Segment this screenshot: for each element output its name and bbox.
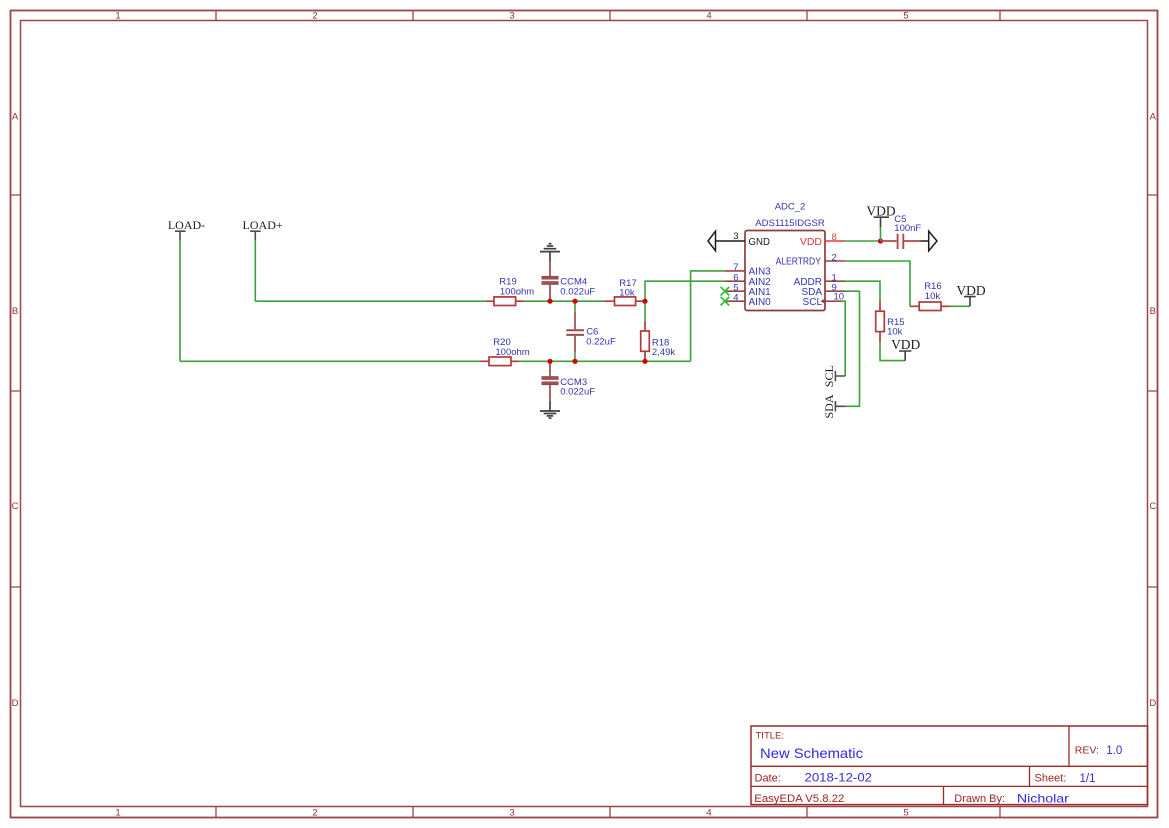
wire R15 to VDD flag	[880, 342, 905, 361]
port arrow GND left	[708, 231, 716, 251]
svg-text:2: 2	[312, 11, 317, 22]
op-amp U1 ADS1115IDGSR body	[745, 231, 825, 311]
svg-text:2,49k: 2,49k	[652, 347, 675, 358]
no-connect X on AIN1	[721, 287, 730, 296]
resistor R16	[910, 302, 950, 311]
capacitor CCM4	[542, 261, 558, 301]
svg-text:D: D	[1149, 698, 1156, 709]
wire ADDR to R15	[845, 281, 880, 301]
resistor R18	[641, 321, 650, 361]
frame row ticks right	[1148, 195, 1158, 587]
capacitor CCM3	[542, 361, 558, 401]
svg-text:3: 3	[733, 231, 738, 242]
wire up to AIN3	[691, 271, 725, 361]
power flag VDD at C5	[866, 203, 895, 241]
svg-text:Drawn By:: Drawn By:	[954, 793, 1005, 805]
wire LOAD+ to R19	[255, 300, 485, 302]
pin 2 ALERTRDY line	[825, 260, 845, 262]
svg-text:B: B	[1150, 306, 1156, 317]
frame row letters right	[1149, 112, 1156, 710]
svg-text:ALERTRDY: ALERTRDY	[776, 257, 822, 268]
resistor R19	[486, 297, 524, 306]
port arrow right of C5	[920, 231, 937, 251]
frame column numbers bottom	[115, 808, 908, 819]
svg-text:2: 2	[832, 252, 837, 263]
port LOAD-	[168, 218, 205, 241]
svg-text:C: C	[1149, 501, 1156, 512]
svg-text:GND: GND	[749, 236, 771, 248]
port SCL	[822, 365, 845, 387]
svg-text:1: 1	[115, 808, 120, 819]
svg-text:ADS1115IDGSR: ADS1115IDGSR	[755, 218, 825, 229]
svg-text:10k: 10k	[619, 287, 635, 298]
svg-text:LOAD+: LOAD+	[243, 218, 283, 232]
svg-text:4: 4	[706, 11, 711, 22]
wire ALERTRDY to R16	[845, 261, 910, 306]
frame column ticks top	[216, 11, 1000, 21]
wire LOAD+ vertical	[254, 241, 256, 302]
port LOAD+	[243, 218, 283, 241]
svg-text:3: 3	[509, 808, 514, 819]
pin 3 GND line	[716, 240, 746, 242]
svg-text:B: B	[12, 306, 18, 317]
pin 8 VDD line	[825, 240, 845, 242]
wire R19 to R17	[524, 300, 604, 302]
title block outline	[751, 726, 1148, 805]
capacitor C6	[566, 312, 584, 353]
svg-text:4: 4	[706, 808, 711, 819]
pin 1 ADDR line	[825, 280, 845, 282]
svg-text:D: D	[12, 698, 19, 709]
frame row letters left	[12, 112, 19, 710]
pin 5 AIN1	[725, 290, 745, 292]
resistor R20	[481, 357, 520, 366]
junction dots top wire	[547, 299, 647, 304]
svg-text:Sheet:: Sheet:	[1035, 773, 1067, 785]
svg-text:2018-12-02: 2018-12-02	[805, 773, 873, 785]
wire R20 to R18 bottom	[519, 360, 690, 362]
power flag VDD at R15	[891, 337, 920, 361]
svg-text:VDD: VDD	[800, 236, 823, 248]
capacitor C5	[881, 234, 921, 249]
svg-text:1: 1	[115, 11, 120, 22]
svg-text:5: 5	[903, 808, 908, 819]
svg-text:0.022uF: 0.022uF	[560, 387, 595, 398]
wire SDA down	[845, 291, 860, 406]
svg-text:VDD: VDD	[891, 337, 920, 352]
junction dots bottom wire	[547, 359, 647, 364]
frame column numbers top	[115, 11, 908, 22]
svg-text:0.22uF: 0.22uF	[586, 336, 616, 347]
wire C6 bottom stub	[574, 353, 576, 362]
svg-text:EasyEDA V5.8.22: EasyEDA V5.8.22	[754, 793, 844, 805]
svg-text:100ohm: 100ohm	[495, 347, 529, 358]
svg-text:8: 8	[832, 232, 837, 243]
pin 7 AIN3	[725, 270, 745, 272]
svg-text:4: 4	[733, 292, 738, 303]
wire junction down to R18	[644, 301, 646, 321]
svg-text:Nicholar: Nicholar	[1017, 791, 1069, 805]
svg-text:2: 2	[312, 808, 317, 819]
svg-text:VDD: VDD	[866, 203, 895, 218]
pin 6 AIN2	[725, 280, 745, 282]
svg-text:LOAD-: LOAD-	[168, 218, 205, 232]
wire VDD net pin8 to junction	[845, 240, 881, 242]
frame row ticks left	[11, 195, 21, 587]
wire LOAD- vertical	[179, 241, 181, 362]
svg-text:A: A	[12, 112, 19, 123]
svg-text:3: 3	[509, 11, 514, 22]
SCL clock marker	[820, 299, 825, 304]
svg-text:100ohm: 100ohm	[500, 287, 534, 298]
svg-text:5: 5	[903, 11, 908, 22]
wire SCL down	[841, 301, 845, 376]
svg-text:TITLE:: TITLE:	[756, 731, 785, 742]
svg-text:10k: 10k	[925, 291, 941, 302]
svg-text:0.022uF: 0.022uF	[560, 286, 595, 297]
port SDA	[822, 394, 845, 418]
wire LOAD- to R20	[180, 360, 481, 362]
svg-text:ADC_2: ADC_2	[775, 201, 806, 212]
wire R16 to VDD flag	[950, 305, 970, 307]
svg-text:100nF: 100nF	[894, 223, 921, 234]
svg-text:New Schematic: New Schematic	[760, 745, 863, 761]
svg-text:A: A	[1150, 112, 1157, 123]
svg-text:AIN0: AIN0	[749, 297, 772, 308]
svg-text:SCL: SCL	[803, 297, 823, 308]
resistor R15	[876, 301, 885, 342]
svg-text:C: C	[12, 501, 19, 512]
svg-text:REV:: REV:	[1075, 745, 1099, 757]
ground below CCM3	[540, 401, 560, 418]
wire R17 junction up to AIN2	[645, 281, 725, 301]
svg-text:SCL: SCL	[822, 365, 836, 387]
svg-text:1.0: 1.0	[1106, 745, 1122, 757]
frame column ticks bottom	[216, 807, 1000, 818]
ground above CCM4	[540, 244, 560, 262]
resistor R17	[604, 297, 645, 306]
junction dot VDD net	[878, 238, 883, 243]
power flag VDD at R16	[956, 283, 985, 306]
no-connect X on AIN0	[721, 297, 730, 306]
svg-text:Date:: Date:	[755, 772, 781, 784]
pin 9 SDA line	[825, 290, 845, 292]
wire C6 top stub	[574, 301, 576, 312]
svg-text:VDD: VDD	[956, 283, 985, 298]
svg-text:SDA: SDA	[822, 394, 836, 418]
pin 10 SCL line	[825, 300, 841, 302]
pin 4 AIN0	[725, 300, 745, 302]
svg-text:1/1: 1/1	[1080, 773, 1096, 785]
